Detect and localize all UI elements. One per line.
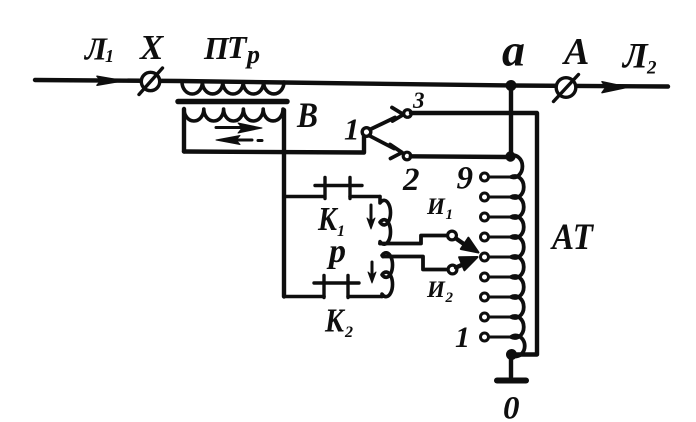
- AT tap 8: [481, 193, 512, 201]
- slider И1 arrow: [456, 238, 479, 253]
- svg-text:А: А: [562, 31, 589, 73]
- svg-text:р: р: [245, 40, 260, 69]
- switch arm to contact 3: [370, 108, 404, 130]
- autotransformer AT winding: [511, 155, 525, 356]
- svg-text:р: р: [326, 233, 346, 270]
- svg-text:1: 1: [446, 207, 454, 223]
- svg-text:П: П: [203, 30, 230, 66]
- svg-text:а: а: [502, 25, 525, 76]
- wire contact 3 to right rail down to AT bottom: [411, 113, 537, 355]
- label 9: [457, 161, 474, 197]
- wire В box bottom to switch common: [184, 137, 364, 153]
- label Л1: [83, 31, 114, 67]
- label Л2: [621, 36, 657, 79]
- svg-text:Т: Т: [227, 29, 248, 65]
- svg-text:В: В: [296, 95, 318, 135]
- svg-text:0: 0: [503, 391, 520, 422]
- label A: [562, 31, 589, 73]
- label И1: [426, 194, 453, 223]
- wire main line Л1 to Л2: [35, 80, 668, 87]
- arrow Л2 direction: [602, 82, 628, 93]
- contact K1: [315, 178, 380, 199]
- switch arm to contact 2: [369, 136, 402, 159]
- svg-text:Л: Л: [621, 36, 649, 76]
- wire relay bottom branch: [284, 295, 324, 299]
- AT tap 4: [481, 273, 512, 281]
- arrow energy flow right: [216, 123, 262, 133]
- svg-text:9: 9: [457, 161, 474, 197]
- AT tap 2: [481, 313, 512, 321]
- transformer ПТр core: [178, 99, 287, 105]
- arrow down lower coil: [368, 262, 376, 283]
- wire slider И2: [383, 257, 448, 270]
- relay coil lower: [382, 253, 393, 297]
- AT tap 3: [481, 293, 512, 301]
- wire В box left side: [182, 109, 186, 152]
- AT tap 1: [481, 333, 512, 341]
- label а: [502, 25, 525, 76]
- disconnector A: [554, 75, 579, 102]
- svg-text:1: 1: [105, 46, 114, 66]
- label р: [326, 233, 346, 270]
- relay coil upper: [380, 197, 391, 245]
- AT tap 6: [481, 233, 512, 241]
- AT tap 7: [481, 213, 512, 221]
- slider contact И2 circle: [448, 265, 457, 274]
- svg-text:АТ: АТ: [550, 217, 594, 258]
- label 1 switch: [344, 112, 360, 147]
- contact 2: [403, 152, 411, 160]
- switch common contact 1: [362, 128, 371, 137]
- AT tap 5: [481, 253, 512, 261]
- svg-text:К: К: [324, 303, 345, 340]
- label 1 bottom tap: [455, 321, 470, 354]
- arrow Л1 direction: [97, 76, 123, 85]
- label АТ: [550, 217, 594, 258]
- svg-text:2: 2: [445, 290, 454, 306]
- contact 3: [404, 110, 412, 118]
- label В: [296, 95, 318, 135]
- disconnector X: [139, 68, 163, 95]
- slider contact И1 circle: [448, 231, 457, 240]
- transformer ПТр primary winding: [182, 82, 284, 94]
- svg-text:2: 2: [344, 324, 353, 341]
- svg-text:1: 1: [344, 112, 360, 147]
- transformer secondary winding В: [184, 109, 283, 121]
- contact K2: [314, 276, 382, 298]
- svg-text:И: И: [426, 194, 446, 219]
- wire rail from В winding down to relay branches: [282, 110, 286, 297]
- slider И2 arrow: [456, 257, 478, 270]
- wire contact 2 to AT top node: [411, 154, 507, 159]
- junction dot AT bottom: [506, 349, 517, 360]
- wire node a down to AT winding: [509, 86, 513, 158]
- label 2: [402, 162, 420, 198]
- wire slider И1: [380, 236, 448, 244]
- svg-text:1: 1: [455, 321, 470, 354]
- ground: [497, 355, 526, 381]
- AT tap 9: [481, 173, 512, 181]
- svg-text:2: 2: [646, 58, 657, 79]
- svg-text:3: 3: [412, 88, 425, 113]
- junction dot AT top: [505, 151, 515, 161]
- wire relay top branch: [284, 195, 323, 199]
- label К2: [324, 303, 353, 342]
- label К1: [317, 201, 345, 240]
- arrow down upper coil: [367, 205, 375, 229]
- label X: [139, 28, 165, 67]
- label 3: [412, 88, 425, 113]
- label И2: [426, 277, 454, 306]
- svg-text:И: И: [426, 277, 446, 302]
- svg-text:2: 2: [402, 162, 420, 198]
- node a junction dot: [506, 80, 517, 91]
- label ПТр: [203, 29, 260, 69]
- arrow energy flow left dashed: [216, 136, 262, 145]
- svg-text:X: X: [139, 28, 165, 67]
- label 0: [503, 391, 520, 422]
